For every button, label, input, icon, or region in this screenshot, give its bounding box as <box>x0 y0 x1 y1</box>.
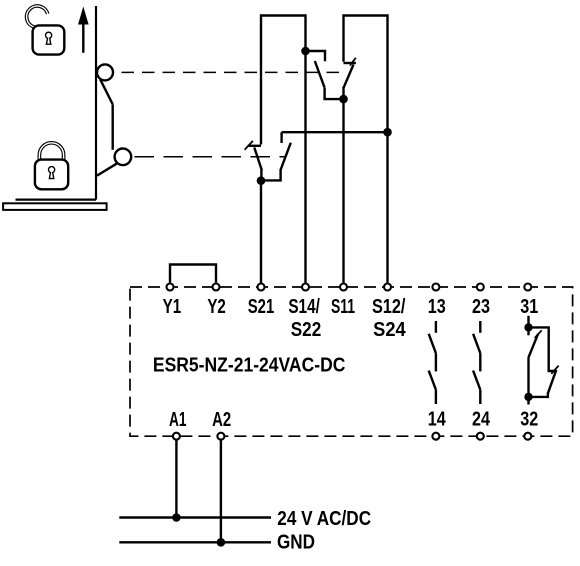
relay NO contact 23-24 <box>473 321 480 404</box>
roller linkage <box>97 80 117 176</box>
GND rail <box>119 541 271 543</box>
junction dot node S14 top <box>301 47 310 56</box>
mechanical link dashed line top <box>122 71 348 73</box>
svg-text:14: 14 <box>428 408 447 430</box>
svg-text:A2: A2 <box>212 409 231 431</box>
terminal Y1 <box>167 284 174 291</box>
terminal 31 <box>524 284 531 291</box>
svg-text:23: 23 <box>472 296 490 318</box>
rail foot line <box>16 199 97 201</box>
svg-text:Y1: Y1 <box>163 296 182 318</box>
relay NO contact 13-14 <box>429 321 436 404</box>
junction dot A1/24V <box>172 513 181 522</box>
lock monitor contact 3 (forced opening) <box>245 141 262 178</box>
wire: horizontal to S12 leg <box>282 131 388 133</box>
terminal A1 <box>173 433 180 440</box>
svg-text:GND: GND <box>277 531 315 553</box>
junction dot A2/GND <box>217 538 226 547</box>
door contact 1 (NC channel 1) <box>306 51 344 99</box>
svg-text:24: 24 <box>472 408 491 430</box>
wire: right loop <box>344 16 388 131</box>
wire: A2 lead <box>220 440 222 542</box>
terminal 13 <box>432 284 439 291</box>
svg-text:S11: S11 <box>331 296 355 318</box>
svg-text:S21: S21 <box>248 296 275 318</box>
locked padlock icon <box>35 143 68 189</box>
svg-text:ESR5-NZ-21-24VAC-DC: ESR5-NZ-21-24VAC-DC <box>153 354 346 376</box>
wire: A1 lead <box>175 440 177 518</box>
Y1-Y2 feedback bridge <box>170 265 216 283</box>
wire: S11 lead down <box>342 99 344 283</box>
wire: S21 lead down <box>260 181 262 283</box>
terminal S14/S22 <box>302 284 309 291</box>
svg-text:13: 13 <box>428 296 446 318</box>
relay NC contacts 31-32 <box>524 316 558 405</box>
svg-text:Y2: Y2 <box>207 296 226 318</box>
wire: S14/S22 lead down <box>304 51 306 283</box>
svg-text:A1: A1 <box>169 409 187 431</box>
svg-text:S24: S24 <box>373 319 406 341</box>
svg-text:S22: S22 <box>291 319 322 341</box>
terminal 24 <box>477 433 484 440</box>
terminal 23 <box>477 284 484 291</box>
svg-text:31: 31 <box>520 296 538 318</box>
wire: S12/S24 lead down <box>386 132 388 283</box>
svg-text:S14/: S14/ <box>288 296 320 318</box>
lock monitor contact 4 <box>262 132 291 180</box>
terminal A2 <box>217 433 224 440</box>
junction dot node S21 top <box>257 176 266 185</box>
safety relay dashed enclosure <box>130 287 573 436</box>
junction dot node S11 top <box>339 95 348 104</box>
mechanical link dashed line bottom <box>135 156 286 158</box>
svg-text:24 V AC/DC: 24 V AC/DC <box>277 508 371 530</box>
actuator roller top <box>97 64 113 80</box>
junction dot node S12 <box>383 128 392 137</box>
terminal S11 <box>340 284 347 291</box>
svg-text:32: 32 <box>520 408 538 430</box>
24V supply rail <box>119 516 271 518</box>
guard door vertical rail <box>95 6 97 200</box>
terminal Y2 <box>213 284 220 291</box>
unlocked padlock icon <box>27 6 65 55</box>
terminal 14 <box>432 433 439 440</box>
base plate <box>3 203 107 210</box>
svg-text:S12/: S12/ <box>372 296 406 318</box>
up arrow (door opening direction) <box>78 7 89 53</box>
wire: left loop S21 up over to contact stub <box>261 16 306 145</box>
terminal 32 <box>524 433 531 440</box>
terminal S21 <box>258 284 265 291</box>
door contact 2 (NC channel 2, forced opening) <box>344 58 356 96</box>
terminal S12/S24 <box>384 284 391 291</box>
actuator roller bottom <box>115 149 132 166</box>
